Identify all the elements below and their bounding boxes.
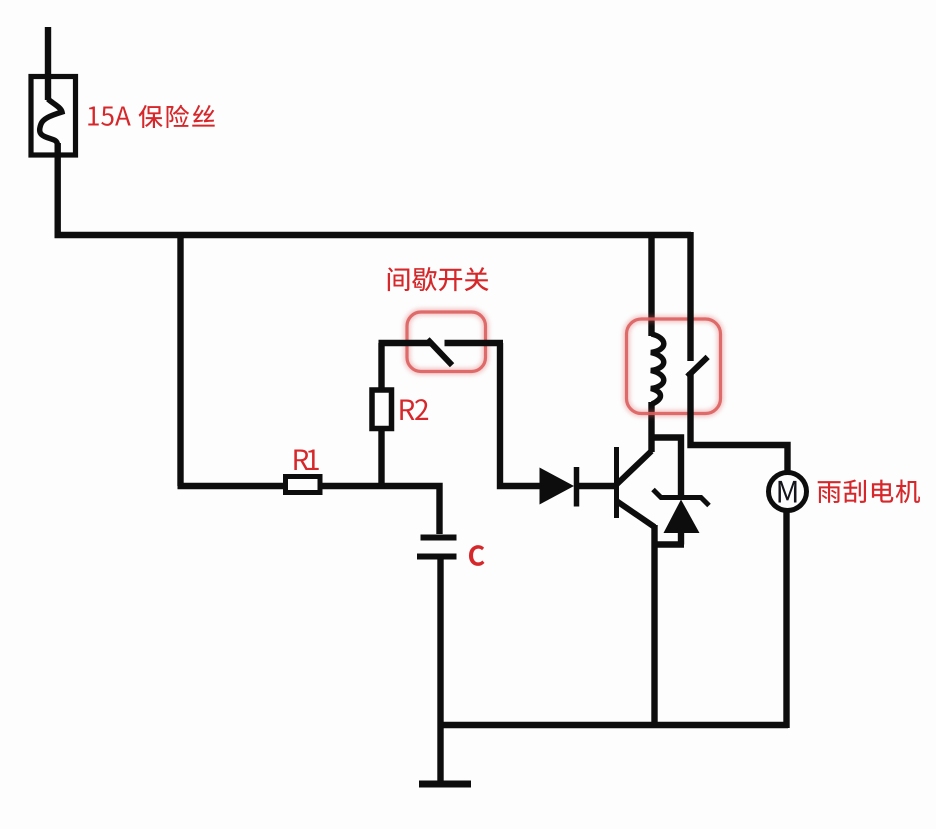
ground bbox=[419, 781, 471, 788]
wire R2 top bbox=[378, 343, 384, 392]
wire emitter to ground rail bbox=[651, 525, 657, 725]
wire top rail bbox=[58, 143, 691, 235]
label R1 bbox=[294, 449, 308, 470]
switch S1 wiper bbox=[379, 340, 432, 346]
fuse F1 bbox=[31, 77, 76, 156]
label 间歇开关 bbox=[388, 267, 410, 291]
label C bbox=[469, 545, 485, 566]
resistor R1 bbox=[286, 477, 321, 493]
motor letter M bbox=[778, 481, 796, 503]
wire motor to ground rail bbox=[783, 511, 789, 728]
highlight box intermittent switch bbox=[407, 312, 486, 372]
highlight box relay bbox=[627, 319, 721, 414]
diode D1 bbox=[540, 468, 575, 505]
label 雨刮电机 bbox=[818, 481, 841, 503]
wire drop to R1 bbox=[177, 232, 183, 486]
capacitor C plates bbox=[421, 535, 457, 541]
motor M1 circle bbox=[769, 473, 807, 511]
wire R1 to capacitor node bbox=[320, 486, 440, 534]
wire coil to collector bbox=[648, 402, 654, 452]
transistor Q1 bbox=[614, 447, 619, 518]
wire relay coil top bbox=[648, 232, 654, 336]
wire battery feed bbox=[45, 27, 51, 100]
resistor R2 bbox=[372, 390, 392, 429]
relay K1 switch bbox=[687, 232, 693, 361]
wire capacitor to ground bbox=[437, 556, 443, 782]
label 15A 保险丝 bbox=[88, 106, 98, 125]
wire to R1 bbox=[178, 483, 285, 489]
wire R2 bottom bbox=[378, 429, 384, 489]
wire switch to diode bbox=[500, 343, 541, 486]
wire collector branch bbox=[649, 438, 682, 497]
label R2 bbox=[400, 399, 414, 420]
relay K1 coil bbox=[651, 334, 664, 404]
wire ground rail bbox=[438, 722, 788, 728]
zener diode Z1 bbox=[653, 490, 709, 506]
